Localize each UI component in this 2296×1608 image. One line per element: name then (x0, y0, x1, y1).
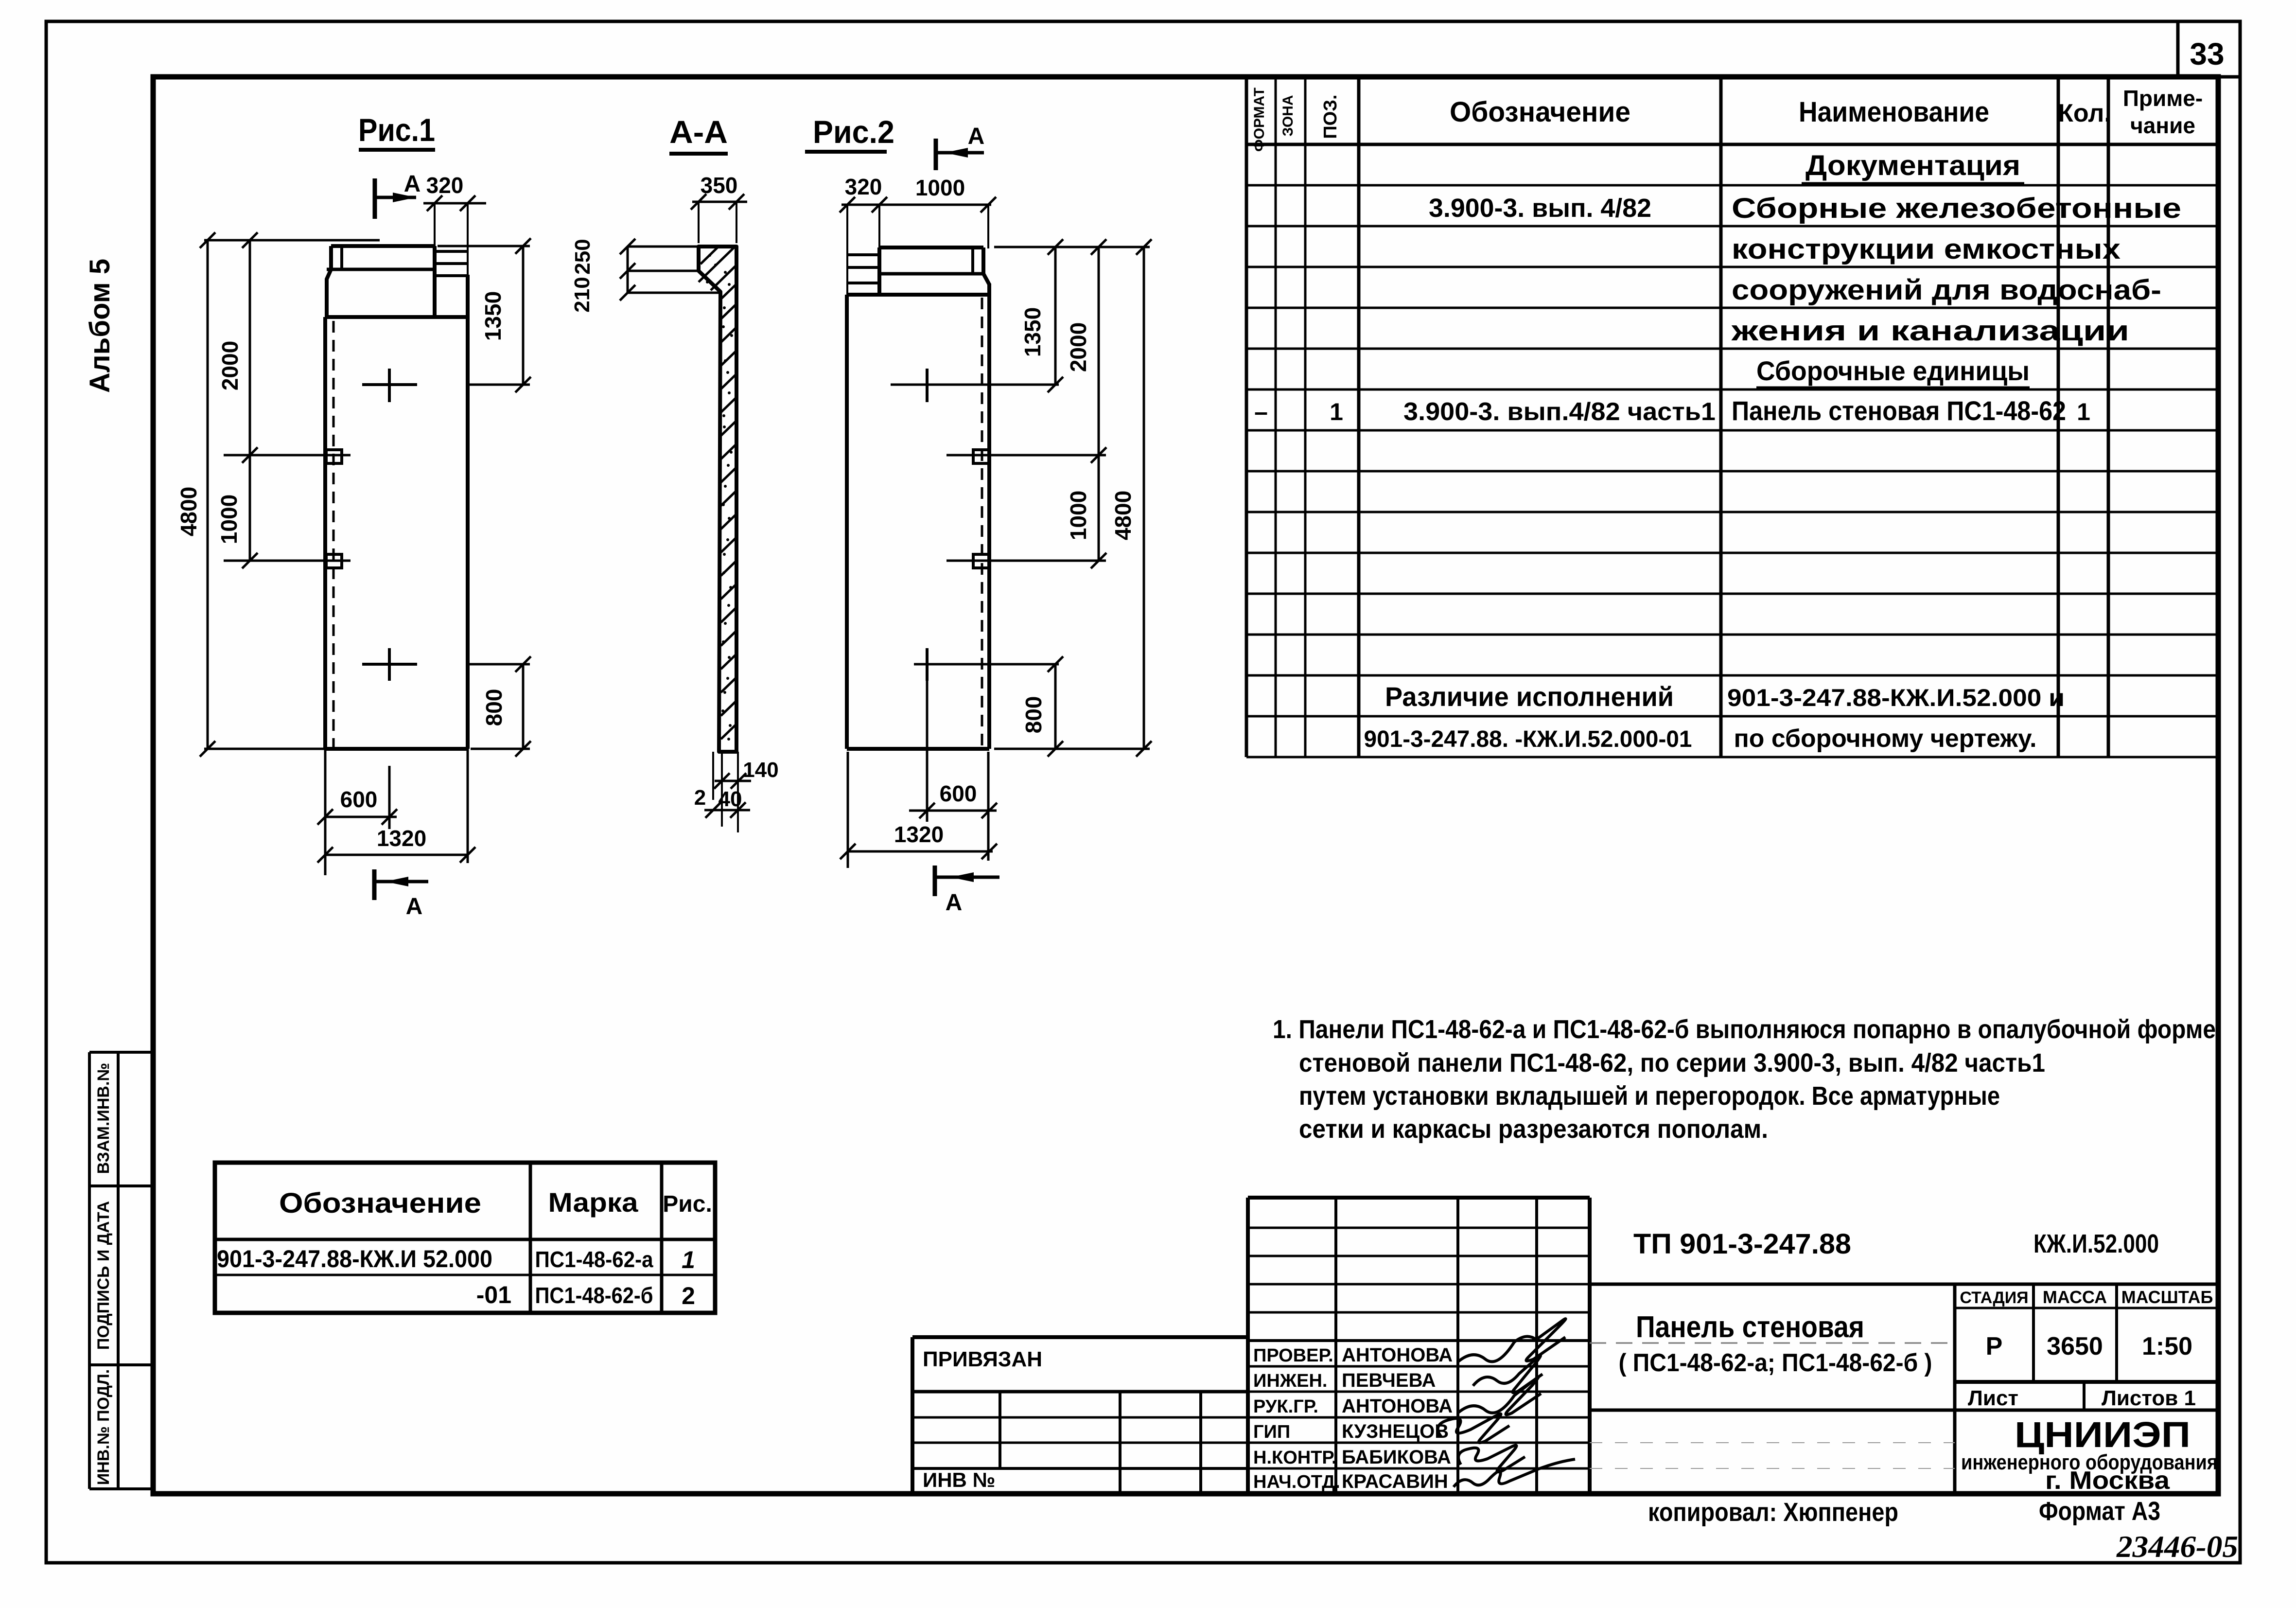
stamp row prover antonova (1253, 1344, 1453, 1366)
svg-text:210: 210 (570, 277, 594, 312)
stamp row ruk gr antonova (1253, 1396, 1453, 1417)
svg-text:А: А (946, 890, 963, 916)
figure 1 dim 1320 bottom (317, 749, 475, 863)
figure 2 dim 600 bottom (909, 676, 997, 861)
inner drawing frame (153, 77, 2218, 1494)
svg-text:Панель стеновая: Панель стеновая (1636, 1310, 1864, 1344)
svg-text:путем установки вкладышей: путем установки вкладышей и перегородок.… (1299, 1081, 2000, 1111)
svg-text:сооружений для водоснаб-: сооружений для водоснаб- (1732, 274, 2161, 306)
svg-text:Р: Р (1986, 1332, 2003, 1361)
svg-text:1: 1 (2077, 398, 2090, 425)
svg-text:жения и канализации: жения и канализации (1731, 315, 2129, 347)
stadia massa masshtab values (1986, 1332, 2192, 1361)
spec row sooruzhenij (1732, 274, 2161, 306)
figure 1 section mark A top (375, 171, 421, 219)
inv no label (923, 1468, 995, 1491)
svg-text:чание: чание (2130, 113, 2195, 138)
section A-A concrete hatch (699, 247, 736, 741)
figure 2 dim 1350 right (994, 239, 1150, 392)
svg-text:-01: -01 (476, 1281, 511, 1308)
svg-text:СТАДИЯ: СТАДИЯ (1960, 1289, 2028, 1307)
stadia massa masshtab headers (1960, 1287, 2213, 1307)
spec row sborochnye edinicy header (1756, 355, 2030, 388)
section A-A title (669, 114, 728, 154)
svg-text:901-3-247.88-КЖ.И.52.000 и: 901-3-247.88-КЖ.И.52.000 и (1727, 684, 2065, 711)
svg-text:Сборочные единицы: Сборочные единицы (1756, 355, 2030, 386)
svg-text:1: 1 (682, 1246, 695, 1273)
spec row Documentation header (1802, 150, 2024, 184)
svg-text:320: 320 (426, 173, 464, 198)
list listov row (1968, 1386, 2196, 1410)
marks table row 1 (217, 1245, 695, 1273)
svg-text:1350: 1350 (1020, 307, 1045, 357)
svg-text:( ПС1-48-62-а; ПС1-48-62-б ): ( ПС1-48-62-а; ПС1-48-62-б ) (1619, 1349, 1932, 1377)
figure 1 dim 800 right (468, 656, 531, 757)
svg-text:600: 600 (340, 787, 378, 812)
svg-text:Альбом 5: Альбом 5 (84, 259, 116, 393)
svg-text:800: 800 (481, 689, 507, 726)
svg-text:ПРОВЕР.: ПРОВЕР. (1253, 1345, 1333, 1366)
stamp row nach otd krasavin (1253, 1471, 1448, 1492)
svg-text:ПРИВЯЗАН: ПРИВЯЗАН (923, 1347, 1042, 1371)
svg-text:1000: 1000 (915, 175, 965, 200)
spec row panel stenovaya PS1-48-62 (1254, 395, 2090, 426)
figure 2 title Ris.2 (805, 114, 894, 152)
svg-text:Обозначение: Обозначение (279, 1187, 481, 1219)
svg-text:Документация: Документация (1805, 150, 2020, 181)
svg-text:Рис.2: Рис.2 (813, 114, 894, 150)
kopiroval line (1648, 1497, 2160, 1527)
svg-text:Сборные железобетонные: Сборные железобетонные (1732, 193, 2181, 224)
signature scribbles (1438, 1319, 1575, 1487)
spec row razlichie ispolnenij (1385, 681, 2065, 712)
spec row zheniya (1731, 315, 2129, 347)
rotated label PODPIS I DATA (94, 1201, 113, 1350)
organization CNIIEP (1961, 1414, 2218, 1495)
svg-text:Н.КОНТР.: Н.КОНТР. (1253, 1448, 1337, 1468)
svg-text:г. Москва: г. Москва (2045, 1467, 2170, 1495)
spec row po sborochnomu chertezhu (1364, 724, 2037, 753)
svg-text:Различие исполнений: Различие исполнений (1385, 681, 1674, 712)
spec table headers (1251, 86, 2203, 152)
specification table grid (1246, 77, 2218, 757)
svg-text:1:50: 1:50 (2142, 1332, 2192, 1361)
figure 1 keyway notch upper (326, 450, 342, 463)
svg-text:ПС1-48-62-а: ПС1-48-62-а (535, 1247, 653, 1272)
svg-text:Кол.: Кол. (2058, 99, 2111, 127)
svg-text:ИНЖЕН.: ИНЖЕН. (1253, 1371, 1327, 1391)
svg-text:стеновой панели ПС1-48-62,: стеновой панели ПС1-48-62, по серии 3.90… (1299, 1048, 2045, 1078)
rotated label VZAM INV (94, 1063, 113, 1174)
svg-text:Рис.: Рис. (663, 1191, 712, 1217)
marks table headers (279, 1187, 712, 1219)
figure 1 dim 1000 left (216, 455, 351, 568)
figure 2 keyway notch lower (973, 554, 989, 568)
svg-text:ГИП: ГИП (1253, 1422, 1290, 1442)
svg-text:конструкции емкостных: конструкции емкостных (1732, 233, 2121, 265)
svg-text:1320: 1320 (894, 822, 944, 847)
rotated label Album 5 (84, 259, 116, 393)
svg-text:КУЗНЕЦОВ: КУЗНЕЦОВ (1342, 1421, 1449, 1442)
svg-text:КЖ.И.52.000: КЖ.И.52.000 (2033, 1229, 2159, 1258)
figure 1 hidden edge dashed (333, 321, 335, 747)
figure 1 dim 2000 left (217, 232, 351, 463)
svg-text:4800: 4800 (176, 487, 201, 536)
figure 1 section mark A bottom (374, 869, 428, 919)
privyazan stamp box (912, 1337, 1246, 1494)
document code KZh.I.52.000 (2033, 1229, 2159, 1258)
svg-text:КРАСАВИН: КРАСАВИН (1342, 1471, 1448, 1492)
svg-text:ВЗАМ.ИНВ.№: ВЗАМ.ИНВ.№ (94, 1063, 113, 1174)
stamp row gip kuznecov (1253, 1421, 1449, 1442)
svg-text:ЦНИИЭП: ЦНИИЭП (2015, 1414, 2191, 1455)
svg-text:Приме-: Приме- (2123, 86, 2203, 111)
svg-text:33: 33 (2190, 36, 2224, 71)
title block grid (1590, 1198, 2218, 1494)
svg-text:ИНВ.№ ПОДЛ.: ИНВ.№ ПОДЛ. (94, 1369, 113, 1485)
svg-text:НАЧ.ОТД.: НАЧ.ОТД. (1253, 1472, 1340, 1492)
figure 1 center cross lower (362, 648, 417, 681)
svg-text:Обозначение: Обозначение (1450, 96, 1630, 128)
figure 1 panel head (327, 246, 468, 317)
svg-text:Рис.1: Рис.1 (358, 112, 435, 148)
figure 2 center cross lower (914, 648, 1059, 681)
svg-text:3.900-3. вып. 4/82: 3.900-3. вып. 4/82 (1429, 194, 1651, 223)
figure 2 dims 320 1000 top (840, 174, 996, 295)
svg-text:2: 2 (694, 786, 706, 810)
section A-A profile outline (699, 247, 736, 752)
svg-text:копировал: Хюппенер: копировал: Хюппенер (1648, 1498, 1898, 1527)
marks table grid (215, 1163, 715, 1313)
stamp row inzhen pevcheva (1253, 1370, 1436, 1391)
svg-text:А-А: А-А (669, 114, 728, 150)
svg-text:1000: 1000 (216, 495, 242, 544)
figure 2 dim 800 right (994, 656, 1150, 757)
figure 2 section mark A bottom (935, 866, 999, 916)
svg-text:40: 40 (719, 787, 742, 811)
stamp row n kontr babikova (1253, 1447, 1451, 1468)
svg-text:600: 600 (940, 781, 977, 806)
figure 2 keyway notch upper (973, 450, 989, 463)
svg-text:–: – (1254, 398, 1268, 425)
figure 2 dim 1000 right (946, 455, 1106, 568)
figure 1 center cross upper (362, 369, 417, 402)
figure 1 dim 4800 left (176, 232, 380, 757)
figure 1 keyway notch lower (326, 554, 342, 568)
rotated label INV N PODL (94, 1369, 113, 1485)
svg-text:МАССА: МАССА (2043, 1287, 2107, 1307)
title block ghost lines (1590, 1343, 1955, 1468)
figure 2 center cross upper (891, 369, 1059, 402)
svg-text:Марка: Марка (548, 1187, 639, 1218)
spec row konstrukcii (1732, 233, 2121, 265)
svg-text:Панель стеновая ПС1-48-62: Панель стеновая ПС1-48-62 (1732, 395, 2066, 426)
svg-text:2000: 2000 (1066, 322, 1091, 372)
figure 1 dim 320 top (423, 173, 486, 275)
section A-A dim 140 bottom (694, 752, 779, 832)
figure 2 dim 1320 bottom (840, 752, 997, 868)
svg-text:ТП 901-3-247.88: ТП 901-3-247.88 (1633, 1228, 1851, 1260)
svg-text:сетки и каркасы разрезают: сетки и каркасы разрезаются пополам. (1299, 1114, 1768, 1144)
svg-text:А: А (404, 171, 421, 197)
svg-text:А: А (406, 894, 423, 919)
svg-text:РУК.ГР.: РУК.ГР. (1253, 1396, 1318, 1417)
figure 2 hidden edge dashed (981, 298, 983, 747)
svg-text:3.900-3. вып.4/82 часть1: 3.900-3. вып.4/82 часть1 (1403, 398, 1716, 426)
document number TP 901-3-247.88 (1633, 1228, 1851, 1260)
figure 2 panel head (846, 247, 989, 295)
figure 1 panel body outline (325, 275, 468, 749)
svg-text:3650: 3650 (2047, 1332, 2103, 1361)
svg-text:Формат А3: Формат А3 (2039, 1497, 2160, 1526)
svg-text:140: 140 (743, 758, 778, 782)
figure 1 dim 600 bottom (317, 749, 397, 875)
sheet number box (2178, 22, 2240, 77)
svg-text:901-3-247.88-КЖ.И 52.000: 901-3-247.88-КЖ.И 52.000 (217, 1245, 492, 1272)
svg-text:1: 1 (1330, 398, 1343, 425)
svg-text:ЗОНА: ЗОНА (1280, 95, 1296, 136)
svg-text:МАСШТАБ: МАСШТАБ (2121, 1287, 2213, 1307)
svg-text:1. Панели ПС1-48-62-а и ПС1-48: 1. Панели ПС1-48-62-а и ПС1-48-62-б выпо… (1273, 1015, 2216, 1044)
section A-A dim 350 top (691, 173, 747, 243)
svg-text:ПОДПИСЬ И ДАТА: ПОДПИСЬ И ДАТА (94, 1201, 113, 1350)
figure 2 panel body outline (847, 283, 989, 749)
svg-text:Наименование: Наименование (1799, 96, 1989, 128)
spec row series 3.900-3 vyp 4/82 (1429, 193, 2181, 224)
svg-text:1320: 1320 (377, 826, 426, 851)
svg-text:ПС1-48-62-б: ПС1-48-62-б (535, 1283, 653, 1308)
figure 2 section mark A top (936, 124, 984, 170)
marks table row 2 (476, 1281, 695, 1309)
privyazan label (923, 1347, 1042, 1371)
svg-text:800: 800 (1021, 696, 1046, 734)
svg-text:23446-05: 23446-05 (2116, 1529, 2238, 1564)
figure 2 dim 4800 right (1110, 239, 1152, 757)
svg-text:ИНВ №: ИНВ № (923, 1468, 995, 1491)
svg-text:БАБИКОВА: БАБИКОВА (1342, 1447, 1451, 1468)
section A-A dims 250 210 left (570, 239, 720, 313)
figure 1 dim 1350 right (438, 238, 531, 392)
svg-text:2000: 2000 (217, 341, 243, 390)
figure 2 dim 2000 right (946, 239, 1106, 463)
svg-text:АНТОНОВА: АНТОНОВА (1342, 1344, 1453, 1366)
left margin stamp boxes (89, 1052, 153, 1489)
svg-text:Лист: Лист (1968, 1386, 2018, 1410)
svg-text:Листов 1: Листов 1 (2102, 1386, 2196, 1410)
svg-text:ФОРМАТ: ФОРМАТ (1251, 88, 1267, 152)
figure 1 title Ris.1 (358, 112, 435, 150)
svg-text:1000: 1000 (1066, 491, 1091, 540)
handwritten archive number (2116, 1529, 2238, 1564)
notes text block (1273, 1015, 2216, 1144)
svg-text:А: А (968, 124, 985, 149)
svg-text:250: 250 (571, 239, 595, 274)
svg-text:по сборочному чертежу.: по сборочному чертежу. (1734, 724, 2037, 753)
title panel stenovaya (1619, 1310, 1932, 1377)
svg-text:1350: 1350 (480, 291, 506, 341)
svg-text:ПОЗ.: ПОЗ. (1320, 94, 1341, 139)
svg-text:АНТОНОВА: АНТОНОВА (1342, 1396, 1453, 1417)
svg-text:320: 320 (845, 174, 882, 199)
svg-text:2: 2 (682, 1282, 695, 1309)
svg-text:ПЕВЧЕВА: ПЕВЧЕВА (1342, 1370, 1436, 1391)
svg-text:4800: 4800 (1110, 491, 1136, 540)
svg-text:901-3-247.88. -КЖ.И.52.000-01: 901-3-247.88. -КЖ.И.52.000-01 (1364, 726, 1692, 752)
central stamp grid (1248, 1198, 1590, 1494)
